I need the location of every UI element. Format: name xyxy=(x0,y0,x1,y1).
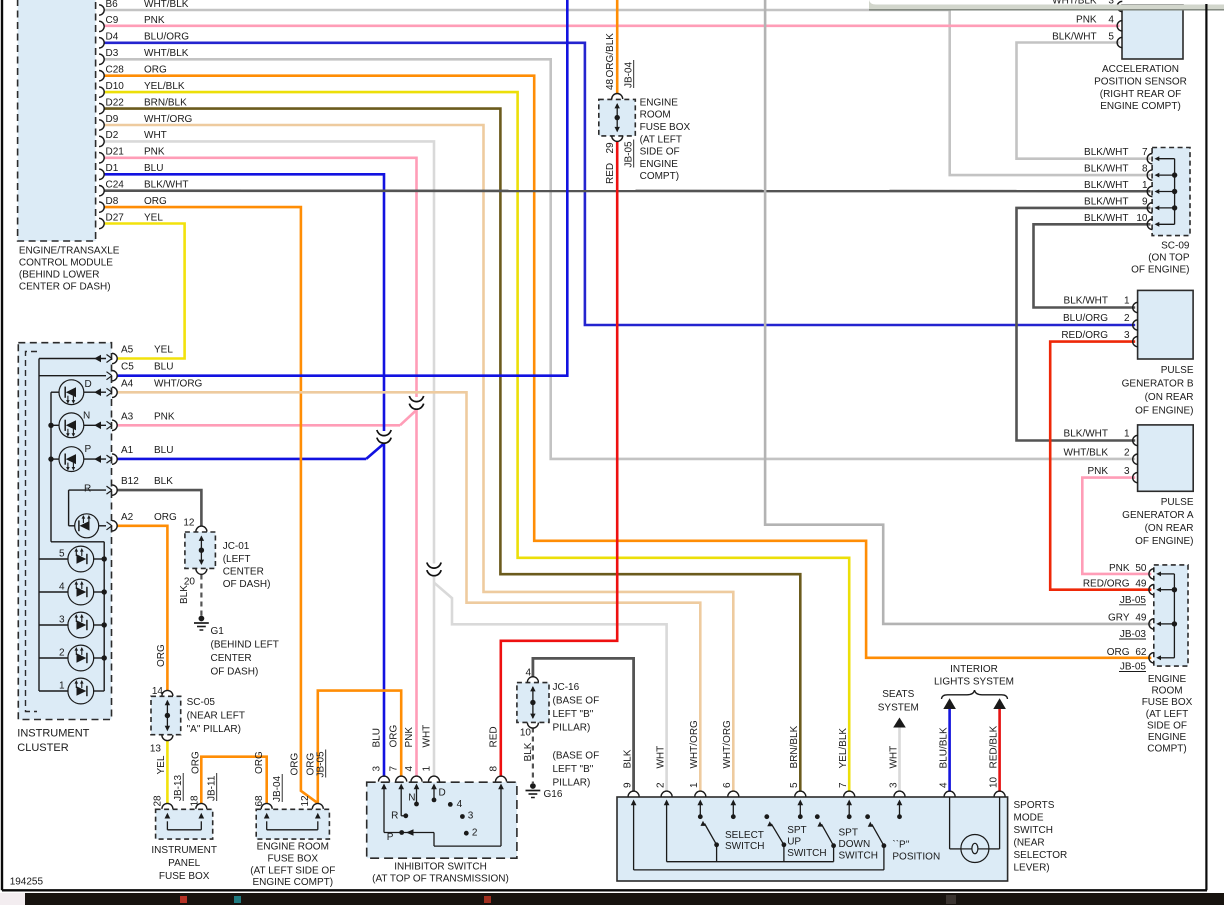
svg-text:OF ENGINE): OF ENGINE) xyxy=(1131,265,1189,276)
svg-text:2: 2 xyxy=(472,827,478,838)
svg-text:BLK/WHT: BLK/WHT xyxy=(1064,296,1108,307)
svg-text:DOWN: DOWN xyxy=(839,839,871,850)
svg-text:D: D xyxy=(85,379,92,390)
svg-text:UP: UP xyxy=(787,837,801,848)
svg-text:N: N xyxy=(408,793,415,804)
svg-text:``P'': ``P'' xyxy=(892,838,909,850)
svg-text:4: 4 xyxy=(938,782,949,788)
svg-text:P: P xyxy=(85,444,92,455)
svg-text:D21: D21 xyxy=(106,147,125,158)
svg-text:(BASE OF: (BASE OF xyxy=(553,696,600,707)
svg-text:ENGINE COMPT): ENGINE COMPT) xyxy=(1100,101,1181,112)
svg-text:WHT/BLK: WHT/BLK xyxy=(144,0,189,10)
svg-text:ORG: ORG xyxy=(1107,647,1130,658)
svg-text:3: 3 xyxy=(888,782,899,788)
svg-text:P: P xyxy=(387,832,394,843)
svg-text:JC-01: JC-01 xyxy=(223,541,250,552)
svg-text:A1: A1 xyxy=(121,445,134,456)
svg-text:4: 4 xyxy=(59,582,65,593)
svg-text:SYSTEM: SYSTEM xyxy=(878,703,919,714)
svg-text:49: 49 xyxy=(1135,613,1147,624)
svg-text:48: 48 xyxy=(605,78,616,90)
svg-text:LEFT "B": LEFT "B" xyxy=(553,764,594,775)
svg-text:(NEAR: (NEAR xyxy=(1014,838,1045,849)
svg-text:ORG: ORG xyxy=(290,753,301,776)
svg-text:JB-13: JB-13 xyxy=(173,774,184,801)
svg-text:A5: A5 xyxy=(121,345,134,356)
svg-text:D2: D2 xyxy=(106,130,119,141)
svg-text:BLK: BLK xyxy=(154,476,173,487)
svg-text:SC-09: SC-09 xyxy=(1161,241,1190,252)
svg-text:18: 18 xyxy=(190,795,201,807)
svg-text:BLU/BLK: BLU/BLK xyxy=(938,727,949,768)
svg-text:5: 5 xyxy=(59,549,65,560)
svg-text:JB-05: JB-05 xyxy=(624,141,635,168)
svg-text:ENGINE ROOM: ENGINE ROOM xyxy=(257,842,329,853)
svg-text:POSITION: POSITION xyxy=(892,851,940,862)
svg-text:YEL: YEL xyxy=(156,755,167,774)
svg-text:BLK: BLK xyxy=(622,749,633,768)
svg-text:RED/BLK: RED/BLK xyxy=(988,725,999,768)
svg-text:D3: D3 xyxy=(106,48,119,59)
svg-text:A4: A4 xyxy=(121,378,134,389)
svg-text:ORG: ORG xyxy=(144,196,167,207)
svg-text:12: 12 xyxy=(183,518,195,529)
svg-text:D10: D10 xyxy=(106,81,125,92)
svg-text:C24: C24 xyxy=(106,180,125,191)
svg-text:3: 3 xyxy=(1124,330,1130,341)
svg-text:(AT LEFT SIDE OF: (AT LEFT SIDE OF xyxy=(250,865,335,876)
svg-text:N: N xyxy=(83,411,90,422)
svg-text:BRN/BLK: BRN/BLK xyxy=(789,725,800,768)
svg-text:8: 8 xyxy=(489,766,500,772)
svg-text:WHT/ORG: WHT/ORG xyxy=(144,114,193,125)
svg-text:GRY: GRY xyxy=(1108,613,1130,624)
svg-text:2: 2 xyxy=(1124,447,1130,458)
svg-text:D: D xyxy=(439,788,446,799)
svg-text:JB-11: JB-11 xyxy=(207,775,218,801)
svg-text:JB-05: JB-05 xyxy=(1120,595,1147,606)
svg-text:10: 10 xyxy=(1136,213,1148,224)
svg-text:4: 4 xyxy=(457,799,463,810)
svg-text:JB-05: JB-05 xyxy=(316,751,327,778)
svg-text:FUSE BOX: FUSE BOX xyxy=(159,871,210,882)
svg-text:PNK: PNK xyxy=(1076,15,1097,26)
svg-text:B12: B12 xyxy=(121,476,139,487)
svg-text:(NEAR LEFT: (NEAR LEFT xyxy=(187,711,245,722)
svg-text:WHT: WHT xyxy=(655,746,666,769)
svg-text:14: 14 xyxy=(152,686,164,697)
svg-text:(ON REAR: (ON REAR xyxy=(1145,392,1194,403)
svg-text:1: 1 xyxy=(59,681,65,692)
svg-text:BLK/WHT: BLK/WHT xyxy=(1084,196,1128,207)
svg-text:LIGHTS SYSTEM: LIGHTS SYSTEM xyxy=(934,677,1014,688)
svg-text:ORG: ORG xyxy=(144,65,167,76)
svg-text:(BEHIND LOWER: (BEHIND LOWER xyxy=(19,270,100,281)
svg-text:(AT LEFT: (AT LEFT xyxy=(640,134,682,145)
svg-text:JB-04: JB-04 xyxy=(272,775,283,802)
svg-text:D27: D27 xyxy=(106,212,125,223)
svg-text:PILLAR): PILLAR) xyxy=(553,723,591,734)
svg-text:C5: C5 xyxy=(121,362,134,373)
svg-text:BLU: BLU xyxy=(154,445,173,456)
svg-text:1: 1 xyxy=(1124,429,1130,440)
svg-text:SEATS: SEATS xyxy=(882,689,914,700)
svg-text:SPORTS: SPORTS xyxy=(1014,800,1055,811)
svg-text:LEVER): LEVER) xyxy=(1014,863,1050,874)
svg-text:R: R xyxy=(391,811,398,822)
svg-text:4: 4 xyxy=(1108,15,1114,26)
svg-text:YEL/BLK: YEL/BLK xyxy=(838,728,849,769)
svg-text:(ON REAR: (ON REAR xyxy=(1145,523,1194,534)
svg-text:A3: A3 xyxy=(121,411,134,422)
svg-text:13: 13 xyxy=(150,744,162,755)
svg-text:SIDE OF: SIDE OF xyxy=(640,147,680,158)
svg-text:BLK/WHT: BLK/WHT xyxy=(1084,180,1128,191)
svg-text:CENTER: CENTER xyxy=(211,653,252,664)
svg-text:50: 50 xyxy=(1135,563,1147,574)
svg-text:PANEL: PANEL xyxy=(168,858,200,869)
svg-text:7: 7 xyxy=(1142,147,1148,158)
svg-text:1: 1 xyxy=(1142,180,1148,191)
svg-text:(BASE OF: (BASE OF xyxy=(553,751,600,762)
svg-text:3: 3 xyxy=(59,615,65,626)
svg-text:CENTER: CENTER xyxy=(223,566,264,577)
svg-text:FUSE BOX: FUSE BOX xyxy=(640,122,691,133)
svg-text:(RIGHT REAR OF: (RIGHT REAR OF xyxy=(1100,89,1181,100)
svg-text:PNK: PNK xyxy=(144,15,165,26)
svg-text:7: 7 xyxy=(389,766,400,772)
svg-text:INSTRUMENT: INSTRUMENT xyxy=(17,728,89,740)
svg-text:9: 9 xyxy=(622,782,633,788)
svg-text:SC-05: SC-05 xyxy=(187,697,216,708)
svg-text:10: 10 xyxy=(520,728,532,739)
svg-text:COMPT): COMPT) xyxy=(640,171,679,182)
svg-text:ROOM: ROOM xyxy=(1151,686,1182,697)
svg-text:D22: D22 xyxy=(106,97,125,108)
svg-text:RED/ORG: RED/ORG xyxy=(1083,579,1130,590)
svg-text:2: 2 xyxy=(655,782,666,788)
svg-text:BRN/BLK: BRN/BLK xyxy=(144,97,187,108)
svg-text:BLK/WHT: BLK/WHT xyxy=(1084,213,1128,224)
svg-text:GENERATOR B: GENERATOR B xyxy=(1122,379,1194,390)
svg-text:POSITION SENSOR: POSITION SENSOR xyxy=(1094,76,1187,87)
svg-text:SWITCH: SWITCH xyxy=(1014,825,1053,836)
svg-text:ENGINE: ENGINE xyxy=(640,159,679,170)
svg-text:RED: RED xyxy=(605,163,616,184)
svg-text:D1: D1 xyxy=(106,163,119,174)
svg-text:6: 6 xyxy=(722,782,733,788)
svg-text:PNK: PNK xyxy=(1087,466,1108,477)
svg-text:ORG/BLK: ORG/BLK xyxy=(605,33,616,78)
svg-text:ENGINE COMPT): ENGINE COMPT) xyxy=(253,877,334,888)
svg-text:1: 1 xyxy=(689,782,700,788)
svg-text:A2: A2 xyxy=(121,512,134,523)
svg-text:WHT/BLK: WHT/BLK xyxy=(144,48,189,59)
svg-text:(AT LEFT: (AT LEFT xyxy=(1146,709,1188,720)
svg-text:WHT/ORG: WHT/ORG xyxy=(689,720,700,769)
svg-text:ORG: ORG xyxy=(154,512,177,523)
svg-text:BLK: BLK xyxy=(523,742,534,761)
svg-text:"A" PILLAR): "A" PILLAR) xyxy=(187,724,241,735)
svg-text:YEL/BLK: YEL/BLK xyxy=(144,81,185,92)
svg-text:C28: C28 xyxy=(106,65,125,76)
svg-text:SIDE OF: SIDE OF xyxy=(1147,720,1187,731)
svg-text:SWITCH: SWITCH xyxy=(839,851,878,862)
svg-text:5: 5 xyxy=(789,782,800,788)
svg-text:INHIBITOR SWITCH: INHIBITOR SWITCH xyxy=(394,862,487,873)
svg-text:BLU: BLU xyxy=(372,728,383,747)
svg-text:WHT: WHT xyxy=(422,725,433,748)
svg-text:ORG: ORG xyxy=(156,644,167,667)
svg-text:PNK: PNK xyxy=(404,727,415,748)
svg-text:3: 3 xyxy=(372,766,383,772)
svg-text:BLK/WHT: BLK/WHT xyxy=(1052,31,1096,42)
svg-text:BLU/ORG: BLU/ORG xyxy=(1063,313,1108,324)
svg-text:ENGINE/TRANSAXLE: ENGINE/TRANSAXLE xyxy=(19,246,120,257)
svg-text:BLK: BLK xyxy=(179,585,190,604)
svg-text:BLU: BLU xyxy=(144,163,163,174)
svg-text:YEL: YEL xyxy=(154,345,173,356)
svg-text:BLK/WHT: BLK/WHT xyxy=(1084,147,1128,158)
svg-text:RED/ORG: RED/ORG xyxy=(1061,330,1108,341)
svg-text:D4: D4 xyxy=(106,32,119,43)
svg-text:ACCELERATION: ACCELERATION xyxy=(1102,64,1179,75)
svg-text:C9: C9 xyxy=(106,15,119,26)
svg-text:SELECT: SELECT xyxy=(725,830,764,841)
svg-text:ENGINE: ENGINE xyxy=(1148,732,1187,743)
svg-text:9: 9 xyxy=(1142,196,1148,207)
svg-text:OF DASH): OF DASH) xyxy=(223,579,271,590)
svg-text:JB-03: JB-03 xyxy=(1120,629,1147,640)
svg-text:JB-04: JB-04 xyxy=(624,61,635,88)
svg-text:194255: 194255 xyxy=(10,877,44,888)
svg-text:2: 2 xyxy=(1124,313,1130,324)
svg-text:OF ENGINE): OF ENGINE) xyxy=(1135,406,1193,417)
svg-text:YEL: YEL xyxy=(144,212,163,223)
svg-text:WHT/ORG: WHT/ORG xyxy=(154,378,203,389)
svg-text:1: 1 xyxy=(1124,296,1130,307)
svg-text:12: 12 xyxy=(300,795,311,807)
svg-text:JC-16: JC-16 xyxy=(553,682,580,693)
svg-text:(AT TOP OF TRANSMISSION): (AT TOP OF TRANSMISSION) xyxy=(372,874,509,885)
svg-text:4: 4 xyxy=(525,668,531,679)
svg-text:(ON TOP: (ON TOP xyxy=(1148,253,1190,264)
svg-text:ORG: ORG xyxy=(254,751,265,774)
svg-text:ORG: ORG xyxy=(389,725,400,748)
svg-text:CONTROL MODULE: CONTROL MODULE xyxy=(19,258,113,269)
svg-text:D8: D8 xyxy=(106,196,119,207)
svg-text:1: 1 xyxy=(422,766,433,772)
svg-text:ROOM: ROOM xyxy=(640,110,671,121)
svg-text:WHT: WHT xyxy=(888,746,899,769)
svg-text:ENGINE: ENGINE xyxy=(640,97,679,108)
svg-text:COMPT): COMPT) xyxy=(1147,744,1186,755)
svg-text:(BEHIND LEFT: (BEHIND LEFT xyxy=(211,640,279,651)
svg-text:WHT/ORG: WHT/ORG xyxy=(722,720,733,769)
svg-text:3: 3 xyxy=(468,811,474,822)
svg-text:BLK/WHT: BLK/WHT xyxy=(144,180,188,191)
svg-text:SPT: SPT xyxy=(787,825,806,836)
svg-text:68: 68 xyxy=(254,795,265,807)
svg-text:49: 49 xyxy=(1135,579,1147,590)
svg-text:(LEFT: (LEFT xyxy=(223,554,251,565)
svg-text:29: 29 xyxy=(605,142,616,154)
svg-text:BLK/WHT: BLK/WHT xyxy=(1084,164,1128,175)
svg-text:SWITCH: SWITCH xyxy=(725,841,764,852)
svg-text:WHT: WHT xyxy=(144,130,167,141)
svg-text:3: 3 xyxy=(1124,466,1130,477)
svg-text:CLUSTER: CLUSTER xyxy=(17,742,68,754)
svg-text:R: R xyxy=(84,484,91,495)
svg-text:OF DASH): OF DASH) xyxy=(211,667,259,678)
svg-text:PNK: PNK xyxy=(154,411,175,422)
svg-text:8: 8 xyxy=(1142,164,1148,175)
svg-text:SELECTOR: SELECTOR xyxy=(1014,850,1068,861)
svg-text:GENERATOR A: GENERATOR A xyxy=(1122,510,1194,521)
svg-text:PULSE: PULSE xyxy=(1161,497,1194,508)
svg-text:FUSE BOX: FUSE BOX xyxy=(268,853,319,864)
svg-text:SPT: SPT xyxy=(839,828,858,839)
svg-text:7: 7 xyxy=(838,782,849,788)
svg-text:WHT/BLK: WHT/BLK xyxy=(1064,447,1109,458)
svg-text:BLK/WHT: BLK/WHT xyxy=(1064,429,1108,440)
svg-text:G1: G1 xyxy=(211,626,225,637)
svg-text:62: 62 xyxy=(1135,647,1147,658)
svg-text:SWITCH: SWITCH xyxy=(787,848,826,859)
svg-text:FUSE BOX: FUSE BOX xyxy=(1142,697,1193,708)
svg-text:JB-05: JB-05 xyxy=(1120,662,1147,673)
svg-text:10: 10 xyxy=(988,776,999,788)
svg-text:D9: D9 xyxy=(106,114,119,125)
svg-text:INTERIOR: INTERIOR xyxy=(950,664,998,675)
svg-text:2: 2 xyxy=(59,648,65,659)
svg-text:PULSE: PULSE xyxy=(1161,365,1194,376)
svg-text:OF ENGINE): OF ENGINE) xyxy=(1135,536,1193,547)
svg-text:ENGINE: ENGINE xyxy=(1148,674,1187,685)
svg-text:RED: RED xyxy=(489,726,500,747)
svg-text:INSTRUMENT: INSTRUMENT xyxy=(151,845,217,856)
svg-text:BLU/ORG: BLU/ORG xyxy=(144,32,189,43)
svg-text:BLU: BLU xyxy=(154,362,173,373)
svg-text:4: 4 xyxy=(404,766,415,772)
svg-text:ORG: ORG xyxy=(191,751,202,774)
svg-text:PNK: PNK xyxy=(144,147,165,158)
svg-text:G16: G16 xyxy=(544,789,563,800)
svg-text:28: 28 xyxy=(153,795,164,807)
svg-text:LEFT "B": LEFT "B" xyxy=(553,709,594,720)
svg-text:5: 5 xyxy=(1108,31,1114,42)
svg-text:MODE: MODE xyxy=(1014,813,1044,824)
svg-text:PILLAR): PILLAR) xyxy=(553,778,591,789)
svg-text:B6: B6 xyxy=(106,0,119,10)
svg-text:PNK: PNK xyxy=(1109,563,1130,574)
svg-text:CENTER OF DASH): CENTER OF DASH) xyxy=(19,282,111,293)
